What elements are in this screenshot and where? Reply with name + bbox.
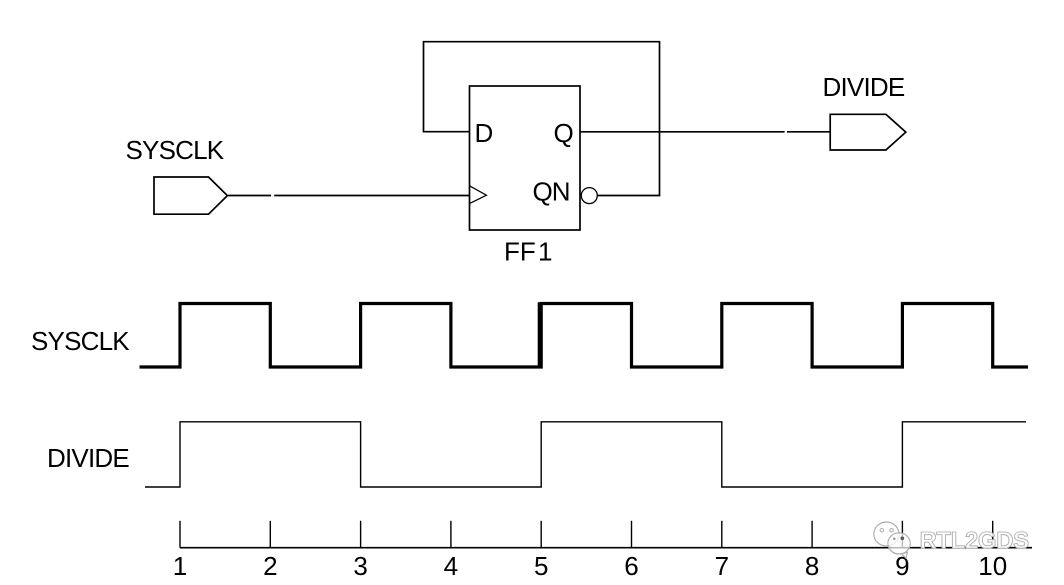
svg-text:7: 7 <box>715 551 729 581</box>
svg-text:QN: QN <box>533 177 570 207</box>
svg-text:5: 5 <box>534 551 548 581</box>
svg-text:1: 1 <box>173 551 187 581</box>
svg-text:10: 10 <box>978 551 1007 581</box>
svg-text:3: 3 <box>353 551 367 581</box>
svg-text:4: 4 <box>444 551 458 581</box>
svg-text:FF: FF <box>504 236 536 266</box>
svg-text:2: 2 <box>263 551 277 581</box>
svg-text:SYSCLK: SYSCLK <box>31 326 130 356</box>
svg-text:SYSCLK: SYSCLK <box>126 135 225 165</box>
svg-text:1: 1 <box>538 236 552 266</box>
svg-text:9: 9 <box>895 551 909 581</box>
svg-text:D: D <box>475 118 494 148</box>
svg-text:6: 6 <box>624 551 638 581</box>
svg-text:DIVIDE: DIVIDE <box>823 72 905 102</box>
svg-text:RTL2GDS: RTL2GDS <box>920 528 1030 555</box>
svg-text:Q: Q <box>554 118 574 148</box>
svg-text:DIVIDE: DIVIDE <box>47 443 129 473</box>
svg-text:8: 8 <box>805 551 819 581</box>
